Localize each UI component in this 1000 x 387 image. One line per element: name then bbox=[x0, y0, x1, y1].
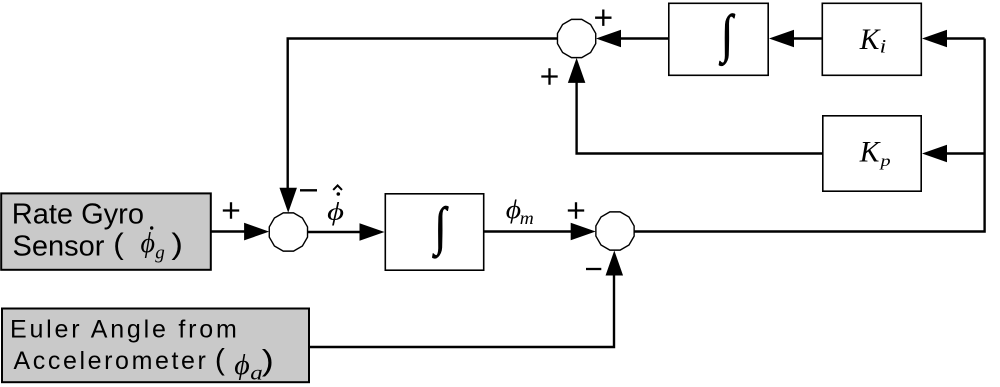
arrowhead into S3 bottom bbox=[568, 58, 586, 83]
svg-text:Accelerometer: Accelerometer bbox=[14, 347, 209, 375]
block Kp bbox=[823, 116, 921, 191]
svg-text:Euler Angle from: Euler Angle from bbox=[10, 315, 240, 343]
plus sign at S3 bottom input bbox=[541, 68, 557, 84]
wire I2 to S3 bbox=[618, 37, 668, 39]
svg-text:ϕ: ϕ bbox=[141, 228, 156, 259]
svg-text:K: K bbox=[859, 24, 881, 56]
block B2 Euler Angle from Accelerometer (gray) bbox=[2, 309, 309, 383]
svg-text:Sensor: Sensor bbox=[13, 230, 105, 262]
label phi-hat-dot: hat bbox=[333, 185, 342, 190]
wire B2 to S2 bottom bbox=[310, 275, 614, 347]
wire Kp to S3 bottom bbox=[577, 80, 822, 154]
svg-text:m: m bbox=[520, 208, 534, 228]
arrowhead into I1 left bbox=[360, 223, 385, 241]
wire S3 left down to S1 top bbox=[288, 39, 558, 190]
svg-text:∫: ∫ bbox=[432, 198, 449, 259]
svg-text:g: g bbox=[155, 242, 165, 263]
svg-text:): ) bbox=[171, 227, 182, 260]
minus sign at S2 bottom input bbox=[586, 268, 601, 270]
arrowhead into S2 left bbox=[571, 223, 596, 241]
plus sign at S1 input bbox=[223, 202, 239, 218]
svg-text:Rate Gyro: Rate Gyro bbox=[12, 199, 144, 231]
summing junction S2 bbox=[596, 212, 634, 250]
svg-text:(: ( bbox=[113, 227, 124, 261]
summing junction S1 bbox=[269, 213, 307, 251]
svg-text:ϕ: ϕ bbox=[327, 198, 344, 226]
arrowhead into S1 left bbox=[244, 223, 269, 241]
svg-text:i: i bbox=[880, 36, 887, 57]
plus sign at S3 right input bbox=[595, 10, 611, 26]
plus sign at S2 input bbox=[568, 202, 584, 218]
arrowhead into S3 right bbox=[596, 30, 621, 48]
svg-text:(: ( bbox=[215, 344, 225, 377]
block B1 Rate Gyro Sensor (gray) bbox=[1, 193, 211, 269]
label phi-dot-g: dot bbox=[150, 226, 153, 229]
block I1 integrator bbox=[385, 194, 483, 270]
wire B1 to S1 bbox=[211, 230, 248, 232]
svg-text:ϕ: ϕ bbox=[234, 350, 249, 381]
wire bus to Kp bbox=[944, 152, 985, 154]
wire S2 right up to Ki input (feedback bus) bbox=[634, 39, 984, 232]
arrowhead into S1 top bbox=[279, 188, 297, 213]
wire bus to Ki bbox=[944, 37, 985, 39]
wire Ki to I2 bbox=[791, 37, 822, 39]
wire S1 to integrator I1 bbox=[308, 231, 362, 233]
arrowhead into Kp right bbox=[922, 145, 947, 163]
svg-text:K: K bbox=[859, 136, 881, 168]
arrowhead into Ki right bbox=[922, 30, 947, 48]
summing junction S3 bbox=[557, 19, 595, 57]
block I2 integrator bbox=[669, 3, 768, 75]
arrowhead into I2 right bbox=[769, 30, 794, 48]
svg-text:∫: ∫ bbox=[719, 5, 736, 66]
block Ki bbox=[822, 3, 921, 75]
minus sign at S1 top input bbox=[300, 189, 317, 191]
svg-text:p: p bbox=[878, 152, 890, 170]
label phi-hat-dot: dot bbox=[337, 192, 341, 196]
svg-text:): ) bbox=[262, 344, 274, 377]
arrowhead into S2 bottom bbox=[606, 251, 624, 276]
wire I1 to S2 bbox=[485, 230, 574, 232]
